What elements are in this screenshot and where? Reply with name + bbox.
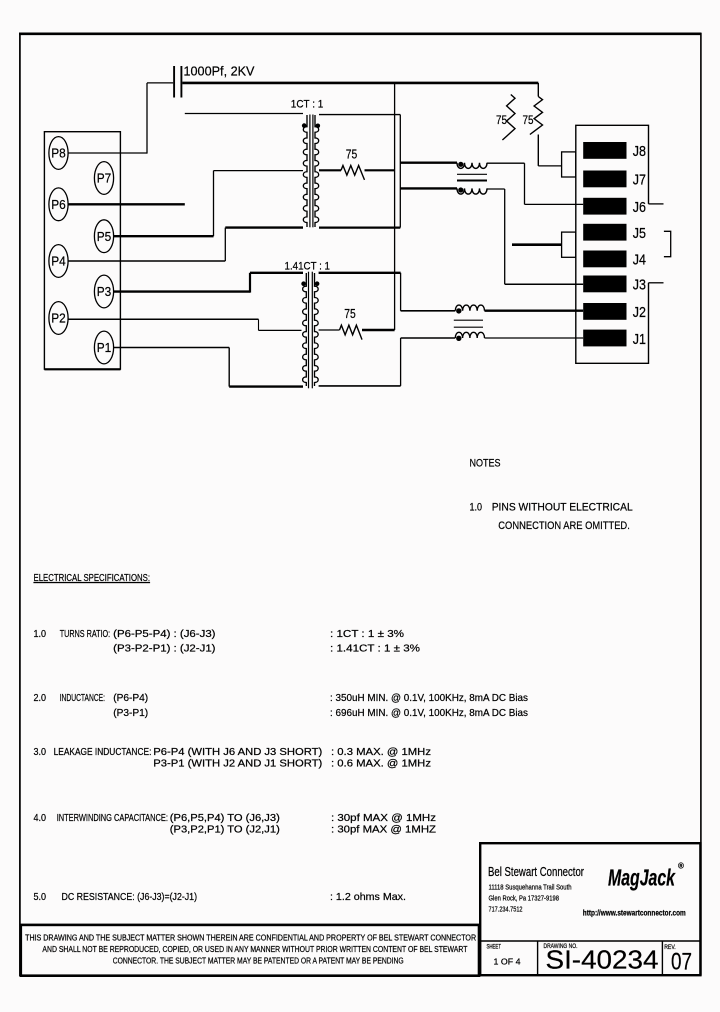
svg-text:: 30pf MAX @ 1MHZ: : 30pf MAX @ 1MHZ: [331, 824, 436, 835]
svg-text:http://www.stewartconnector.co: http://www.stewartconnector.com: [583, 908, 686, 917]
svg-text:3.0: 3.0: [34, 747, 47, 758]
svg-text:J1: J1: [633, 332, 646, 348]
svg-text:AND SHALL NOT BE REPRODUCED, C: AND SHALL NOT BE REPRODUCED, COPIED, OR …: [42, 945, 467, 954]
svg-text:(P6-P4): (P6-P4): [113, 693, 148, 704]
svg-text:75: 75: [496, 113, 507, 127]
svg-text:P7: P7: [97, 171, 112, 186]
svg-text:1.0: 1.0: [34, 629, 47, 640]
svg-text:P5: P5: [97, 229, 112, 244]
svg-text:J5: J5: [633, 226, 646, 242]
svg-text:LEAKAGE INDUCTANCE:: LEAKAGE INDUCTANCE:: [54, 747, 152, 758]
svg-text:07: 07: [671, 949, 692, 976]
svg-text:TURNS RATIO:: TURNS RATIO:: [60, 629, 110, 640]
svg-text:(P3-P2-P1) : (J2-J1): (P3-P2-P1) : (J2-J1): [113, 644, 215, 655]
svg-text:P6: P6: [51, 197, 66, 212]
svg-text:CONNECTION ARE OMITTED.: CONNECTION ARE OMITTED.: [498, 520, 630, 532]
svg-text:: 1.2 ohms Max.: : 1.2 ohms Max.: [330, 892, 406, 903]
svg-text:INDUCTANCE:: INDUCTANCE:: [60, 693, 105, 704]
svg-text:Bel Stewart Connector: Bel Stewart Connector: [488, 865, 584, 879]
svg-text:(P3,P2,P1) TO (J2,J1): (P3,P2,P1) TO (J2,J1): [170, 824, 280, 835]
svg-text:75: 75: [523, 113, 534, 127]
svg-text:4.0: 4.0: [34, 813, 47, 824]
svg-text:J3: J3: [633, 278, 646, 294]
svg-text:: 350uH MIN. @ 0.1V, 100KHz, 8: : 350uH MIN. @ 0.1V, 100KHz, 8mA DC Bias: [330, 693, 528, 704]
svg-text:J7: J7: [633, 173, 646, 189]
svg-text:11118 Susquehanna Trail South: 11118 Susquehanna Trail South: [489, 883, 572, 892]
svg-text:75: 75: [346, 147, 358, 161]
svg-text:®: ®: [678, 862, 684, 871]
svg-text:75: 75: [344, 307, 356, 321]
svg-text:(P3-P1): (P3-P1): [113, 708, 148, 719]
svg-text:ELECTRICAL SPECIFICATIONS:: ELECTRICAL SPECIFICATIONS:: [34, 573, 151, 584]
svg-text:P6-P4 (WITH J6 AND J3 SHORT): P6-P4 (WITH J6 AND J3 SHORT): [153, 747, 322, 758]
svg-text:717.234.7512: 717.234.7512: [489, 904, 523, 913]
svg-text:P1: P1: [97, 340, 112, 355]
svg-text:P4: P4: [51, 254, 66, 269]
svg-text:Glen Rock, Pa 17327-9198: Glen Rock, Pa 17327-9198: [489, 894, 560, 903]
svg-text:P3: P3: [97, 284, 112, 299]
svg-text:1000Pf, 2KV: 1000Pf, 2KV: [184, 64, 255, 79]
svg-text:(P6,P5,P4) TO (J6,J3): (P6,P5,P4) TO (J6,J3): [170, 813, 280, 824]
svg-text:J8: J8: [633, 144, 646, 160]
svg-text:NOTES: NOTES: [470, 458, 501, 470]
svg-text:1.41CT : 1: 1.41CT : 1: [285, 260, 331, 272]
svg-text:1 OF 4: 1 OF 4: [494, 957, 521, 967]
svg-text:MagJack: MagJack: [608, 865, 676, 891]
svg-text:J2: J2: [633, 305, 646, 321]
svg-text:INTERWINDING CAPACITANCE:: INTERWINDING CAPACITANCE:: [57, 813, 168, 824]
svg-text:1CT : 1: 1CT : 1: [291, 98, 324, 110]
svg-text:PINS WITHOUT ELECTRICAL: PINS WITHOUT ELECTRICAL: [492, 502, 633, 514]
svg-text:P3-P1 (WITH J2 AND J1 SHORT): P3-P1 (WITH J2 AND J1 SHORT): [153, 759, 322, 770]
svg-text:: 0.3 MAX. @ 1MHz: : 0.3 MAX. @ 1MHz: [331, 747, 431, 758]
svg-text:SHEET: SHEET: [487, 944, 502, 951]
svg-text:SI-40234: SI-40234: [546, 947, 659, 975]
svg-text:J6: J6: [633, 200, 646, 216]
svg-text:CONNECTOR. THE SUBJECT MATTER: CONNECTOR. THE SUBJECT MATTER MAY BE PAT…: [113, 956, 404, 965]
svg-text:5.0: 5.0: [34, 892, 47, 903]
svg-text:DC RESISTANCE: (J6-J3)=(J2-J1): DC RESISTANCE: (J6-J3)=(J2-J1): [62, 892, 198, 903]
svg-text:: 1.41CT : 1 ± 3%: : 1.41CT : 1 ± 3%: [330, 644, 420, 655]
svg-text:(P6-P5-P4) : (J6-J3): (P6-P5-P4) : (J6-J3): [113, 629, 215, 640]
svg-text:J4: J4: [633, 253, 646, 269]
svg-text:: 0.6 MAX. @ 1MHz: : 0.6 MAX. @ 1MHz: [331, 759, 431, 770]
svg-text:: 30pf MAX @ 1MHz: : 30pf MAX @ 1MHz: [331, 813, 436, 824]
svg-text:: 696uH MIN. @ 0.1V, 100KHz, 8: : 696uH MIN. @ 0.1V, 100KHz, 8mA DC Bias: [330, 708, 528, 719]
svg-text:P2: P2: [51, 311, 66, 326]
svg-text:2.0: 2.0: [34, 693, 47, 704]
svg-text:P8: P8: [51, 146, 66, 161]
svg-text:THIS DRAWING AND THE SUBJECT M: THIS DRAWING AND THE SUBJECT MATTER SHOW…: [25, 933, 476, 942]
svg-text:: 1CT : 1 ± 3%: : 1CT : 1 ± 3%: [330, 629, 404, 640]
svg-text:1.0: 1.0: [470, 502, 483, 514]
